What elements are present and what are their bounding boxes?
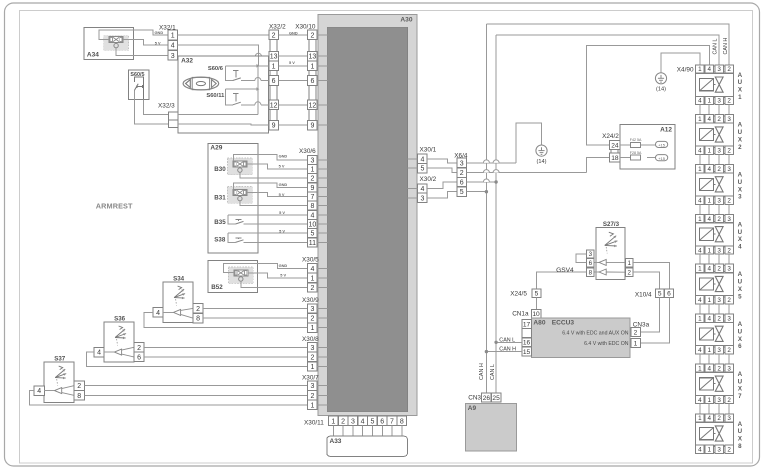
svg-text:CAN L: CAN L bbox=[490, 364, 496, 380]
connector X30/1 pin 5 bbox=[418, 164, 427, 173]
svg-text:A: A bbox=[738, 221, 743, 228]
connector X30/6 pin 8 bbox=[308, 201, 318, 210]
svg-text:X24/2: X24/2 bbox=[602, 133, 619, 140]
label CAN L (ECCU3) bbox=[499, 337, 515, 343]
svg-text:4: 4 bbox=[698, 197, 702, 204]
svg-text:3: 3 bbox=[727, 365, 731, 372]
connector CN1a pin 10 bbox=[531, 309, 541, 318]
svg-text:3: 3 bbox=[310, 306, 314, 313]
svg-text:S27/3: S27/3 bbox=[603, 221, 620, 228]
valve module AUX4 bbox=[696, 214, 743, 254]
svg-text:6: 6 bbox=[310, 78, 314, 85]
connector X6/4 pin 3 bbox=[457, 158, 467, 167]
connector X30/5 pin 4 bbox=[308, 264, 318, 273]
label 5 V (A34) bbox=[155, 40, 161, 45]
svg-text:1: 1 bbox=[171, 33, 175, 40]
svg-text:3: 3 bbox=[589, 251, 593, 258]
wire X6/4 pin2 to X24/2 pin18 bbox=[467, 158, 610, 173]
svg-text:12: 12 bbox=[270, 102, 278, 109]
connector S27/3 pin 8 bbox=[587, 268, 595, 276]
svg-text:12: 12 bbox=[309, 102, 317, 109]
svg-text:1: 1 bbox=[698, 365, 702, 372]
connector X32/1 pin 4 bbox=[168, 40, 178, 50]
svg-text:F28 5A: F28 5A bbox=[630, 151, 642, 155]
connector X10/4 pin 6 bbox=[665, 289, 674, 298]
svg-text:GSV4: GSV4 bbox=[556, 267, 574, 274]
connector X30/6 pin 9 bbox=[308, 183, 318, 192]
wire X4/90 pin1 to ground bbox=[661, 53, 700, 73]
svg-text:2: 2 bbox=[460, 170, 464, 177]
svg-text:(14): (14) bbox=[656, 87, 666, 93]
svg-text:A34: A34 bbox=[87, 51, 99, 58]
wire B52 wiper to X30/5 pin 2 bbox=[241, 281, 308, 287]
svg-text:4: 4 bbox=[698, 397, 702, 404]
stub X30/6 pin 10 into A30 bbox=[317, 223, 327, 225]
svg-text:1: 1 bbox=[272, 63, 276, 70]
svg-text:5: 5 bbox=[658, 291, 662, 298]
svg-text:X30/10: X30/10 bbox=[295, 24, 316, 31]
svg-text:1: 1 bbox=[707, 148, 711, 155]
svg-text:6.4 V with EDC ON: 6.4 V with EDC ON bbox=[584, 341, 629, 347]
svg-text:X30/1: X30/1 bbox=[420, 147, 437, 154]
sensor B30 symbol bbox=[228, 158, 253, 175]
control unit A30 outer box bbox=[318, 15, 417, 416]
switch S60/11 bbox=[225, 89, 268, 105]
svg-text:X30/2: X30/2 bbox=[420, 176, 437, 183]
connector X30/8 pin 2 bbox=[308, 352, 318, 361]
svg-text:2: 2 bbox=[727, 148, 731, 155]
svg-text:A: A bbox=[738, 122, 743, 129]
wire X30/2 pin3 to X6/4 pin5 bbox=[427, 192, 457, 198]
svg-text:4: 4 bbox=[707, 216, 711, 223]
svg-text:2: 2 bbox=[738, 144, 742, 151]
connector X30/10 pin 6 bbox=[308, 76, 318, 86]
svg-text:GND: GND bbox=[279, 182, 288, 187]
wire S27/3 pin1 to X10/4 pin6 bbox=[633, 263, 669, 289]
svg-text:3: 3 bbox=[310, 157, 314, 164]
svg-text:4: 4 bbox=[171, 43, 175, 50]
lever upper (S27/3) bbox=[594, 259, 625, 265]
svg-text:15: 15 bbox=[523, 349, 531, 356]
label GND (B30) bbox=[279, 154, 288, 159]
label CAN L (top right, vertical) bbox=[713, 39, 719, 55]
valve module AUX7 bbox=[696, 364, 743, 404]
connector X32/2 pin 1 bbox=[269, 61, 279, 71]
svg-text:6: 6 bbox=[380, 418, 384, 425]
svg-text:2: 2 bbox=[717, 365, 721, 372]
svg-text:1: 1 bbox=[698, 216, 702, 223]
sensor B52 box bbox=[208, 260, 258, 292]
svg-text:X30/7: X30/7 bbox=[302, 375, 319, 382]
svg-text:1: 1 bbox=[738, 94, 742, 101]
svg-text:2: 2 bbox=[727, 347, 731, 354]
wire X30/11 pin 8 to A33 bbox=[401, 426, 403, 437]
svg-text:S38: S38 bbox=[214, 237, 226, 244]
wire CAN H to ECCU3 pin15 bbox=[485, 350, 522, 353]
connector X32/2 pin 2 bbox=[269, 30, 279, 40]
connector X30/9 pin 3 bbox=[308, 304, 318, 313]
svg-text:6: 6 bbox=[589, 260, 593, 267]
svg-text:5 V: 5 V bbox=[279, 210, 285, 215]
wire GSV4: S27/3 pin8 to X24/5 pin5 bbox=[536, 272, 586, 289]
wire A34 wiper to X32/1 pin 3 bbox=[116, 48, 168, 56]
svg-text:ARMREST: ARMREST bbox=[96, 202, 133, 211]
fuse F28 5A bbox=[620, 151, 655, 160]
stub X30/9 pin 1 into A30 bbox=[317, 327, 327, 329]
svg-text:X32/3: X32/3 bbox=[158, 103, 175, 110]
svg-text:8: 8 bbox=[196, 316, 200, 323]
connector X30/7 label bbox=[302, 375, 319, 382]
svg-text:2: 2 bbox=[717, 415, 721, 422]
wire X32/3 lower pin to X32/2 pin 9 bbox=[178, 124, 269, 125]
connector X30/9 pin 1 bbox=[308, 323, 318, 332]
svg-text:5: 5 bbox=[535, 291, 539, 298]
svg-text:5 V: 5 V bbox=[289, 60, 295, 65]
svg-text:3: 3 bbox=[727, 316, 731, 323]
wire CAN L top run bbox=[496, 35, 719, 65]
svg-text:2: 2 bbox=[727, 98, 731, 105]
svg-text:2: 2 bbox=[727, 447, 731, 454]
wire X32/3 upper pin to switch rail bbox=[178, 114, 258, 116]
svg-text:24: 24 bbox=[611, 142, 619, 149]
svg-text:3: 3 bbox=[460, 160, 464, 167]
svg-text:13: 13 bbox=[270, 54, 278, 61]
fuse box A12 bbox=[620, 124, 675, 169]
wire X32/2 pin13 to X30/10 pin13 bbox=[278, 55, 307, 57]
svg-text:1: 1 bbox=[698, 266, 702, 273]
svg-text:17: 17 bbox=[523, 321, 531, 328]
switch S60/6 bbox=[225, 66, 268, 81]
svg-text:F42 5A: F42 5A bbox=[630, 138, 642, 142]
svg-text:A: A bbox=[738, 421, 743, 428]
connector X30/2 pin 4 bbox=[418, 184, 427, 193]
wire X30/11 pin 6 to A33 bbox=[381, 426, 383, 437]
connector X30/7 pin 1 bbox=[308, 400, 318, 409]
svg-text:3: 3 bbox=[717, 347, 721, 354]
svg-text:1: 1 bbox=[707, 297, 711, 304]
svg-text:2: 2 bbox=[310, 316, 314, 323]
svg-text:2: 2 bbox=[310, 176, 314, 183]
svg-text:X24/5: X24/5 bbox=[510, 291, 527, 298]
connector X30/11 pin 7 bbox=[387, 416, 397, 425]
ground symbol (14) near X6/4 bbox=[536, 145, 547, 165]
stub X30/2 pin 3 bbox=[407, 197, 417, 199]
svg-text:6: 6 bbox=[272, 78, 276, 85]
switch S36 (with wires to X30/8) bbox=[87, 316, 308, 367]
svg-text:4: 4 bbox=[707, 365, 711, 372]
svg-text:2: 2 bbox=[727, 247, 731, 254]
svg-text:1: 1 bbox=[707, 397, 711, 404]
amplifier unit A33 box bbox=[327, 436, 408, 456]
svg-text:1: 1 bbox=[698, 316, 702, 323]
connector X30/1 pin 4 bbox=[418, 154, 427, 163]
wire S60/5 to X32/3 lower pin bbox=[135, 99, 169, 124]
svg-text:A32: A32 bbox=[181, 58, 193, 65]
connector X30/8 pin 1 bbox=[308, 362, 318, 371]
sensor B31 symbol bbox=[228, 187, 253, 204]
sensor A34 symbol bbox=[104, 36, 129, 51]
connector X32/1 pin 1 bbox=[168, 30, 178, 40]
svg-text:11: 11 bbox=[309, 240, 316, 247]
wire X32/1 pin3 to X32/2 pin13 (signal) bbox=[178, 53, 269, 56]
wire B30 5V to X30/6 pin 1 bbox=[247, 164, 308, 169]
svg-text:6: 6 bbox=[137, 354, 141, 361]
svg-text:(14): (14) bbox=[537, 159, 547, 165]
wire X32/1 pin4 to X32/2 pin1 (5V) bbox=[178, 45, 269, 66]
svg-text:3: 3 bbox=[420, 195, 424, 202]
svg-text:3: 3 bbox=[738, 194, 742, 201]
control unit A30 inner block bbox=[327, 27, 407, 412]
svg-text:1: 1 bbox=[331, 418, 335, 425]
stub X30/5 pin 4 into A30 bbox=[317, 267, 327, 269]
connector X30/10 strip bbox=[309, 30, 316, 130]
connector X10/4 label bbox=[635, 291, 652, 298]
stub X30/7 pin 1 into A30 bbox=[317, 404, 327, 406]
wire B30 wiper to X30/6 pin 2 bbox=[240, 172, 308, 178]
svg-text:4: 4 bbox=[698, 347, 702, 354]
label GSV4 bbox=[556, 267, 574, 274]
svg-text:A: A bbox=[738, 172, 743, 179]
svg-text:4: 4 bbox=[361, 418, 365, 425]
svg-text:1: 1 bbox=[634, 340, 638, 347]
svg-text:2: 2 bbox=[310, 32, 314, 39]
connector X24/5 label bbox=[510, 291, 527, 298]
wire CAN H bus (vertical) bbox=[485, 24, 487, 393]
svg-text:2: 2 bbox=[727, 197, 731, 204]
svg-text:CN3: CN3 bbox=[468, 394, 481, 401]
svg-text:3: 3 bbox=[727, 415, 731, 422]
svg-text:3: 3 bbox=[351, 418, 355, 425]
svg-text:3: 3 bbox=[727, 266, 731, 273]
svg-text:CAN L: CAN L bbox=[499, 337, 515, 343]
svg-text:7: 7 bbox=[738, 393, 742, 400]
svg-text:+15: +15 bbox=[658, 143, 666, 148]
connector CN1a label bbox=[512, 310, 529, 317]
svg-text:1: 1 bbox=[310, 325, 314, 332]
svg-text:3: 3 bbox=[171, 53, 175, 60]
connector X30/6 pin 1 bbox=[308, 165, 318, 174]
valve module AUX6 bbox=[696, 314, 743, 354]
svg-text:4: 4 bbox=[698, 148, 702, 155]
wire X6/4 pin6 to CAN L bbox=[467, 179, 498, 184]
svg-text:2: 2 bbox=[727, 397, 731, 404]
label CAN H (bus, vertical) bbox=[479, 363, 485, 380]
svg-text:3: 3 bbox=[717, 447, 721, 454]
svg-text:8: 8 bbox=[77, 393, 81, 400]
connector CN3a label bbox=[633, 321, 650, 328]
stub X30/8 pin 3 into A30 bbox=[317, 346, 327, 348]
svg-text:GND: GND bbox=[279, 263, 288, 268]
wire CAN H top run bbox=[486, 24, 729, 65]
connector X24/2 pin 18 bbox=[610, 153, 620, 162]
connector X30/5 pin 2 bbox=[308, 283, 318, 292]
wire B31 wiper to X30/6 pin 8 bbox=[240, 201, 308, 206]
wires AUX4 to AUX5 bbox=[700, 254, 729, 264]
connector X32/2 pin 13 bbox=[269, 51, 279, 61]
switch S60/11 label bbox=[206, 93, 225, 99]
control unit A80 ECCU3 box bbox=[531, 318, 630, 358]
svg-text:5 V: 5 V bbox=[279, 228, 285, 233]
wires AUX6 to AUX7 bbox=[700, 354, 729, 364]
svg-text:X30/11: X30/11 bbox=[304, 419, 324, 426]
svg-text:X10/4: X10/4 bbox=[635, 291, 652, 298]
wire B31 5V to X30/6 pin 7 bbox=[247, 193, 308, 197]
wire X30/11 pin 1 to A33 bbox=[332, 426, 334, 437]
svg-text:2: 2 bbox=[717, 166, 721, 173]
svg-text:5: 5 bbox=[370, 418, 374, 425]
svg-text:13: 13 bbox=[309, 54, 317, 61]
stub X30/10 pin 12 into A30 bbox=[317, 104, 327, 106]
text 6.4 V with EDC ON bbox=[584, 341, 629, 347]
svg-text:3: 3 bbox=[727, 116, 731, 123]
switch S34 (with wires to X30/9) bbox=[144, 276, 307, 328]
svg-text:2: 2 bbox=[310, 393, 314, 400]
wire X24/5 pin5 to CN1a pin10 bbox=[535, 298, 537, 310]
sensor B30 label bbox=[214, 166, 226, 173]
stub X30/5 pin 1 into A30 bbox=[317, 277, 327, 279]
connector X32/2 label bbox=[269, 24, 286, 31]
connector ECCU3 pin 17 bbox=[522, 320, 532, 329]
wire X30/11 pin 2 to A33 bbox=[342, 426, 344, 437]
svg-text:2: 2 bbox=[272, 32, 276, 39]
wire X32/2 pin1 to X30/10 pin1 (5V) bbox=[278, 65, 307, 67]
connector X10/4 pin 5 bbox=[655, 289, 664, 298]
svg-text:5: 5 bbox=[310, 231, 314, 238]
switch B35 label bbox=[214, 219, 226, 226]
svg-text:10: 10 bbox=[309, 222, 317, 229]
svg-text:1: 1 bbox=[707, 98, 711, 105]
svg-text:4: 4 bbox=[738, 244, 742, 251]
svg-text:9: 9 bbox=[272, 123, 276, 130]
svg-text:GND: GND bbox=[289, 30, 298, 35]
svg-text:U: U bbox=[738, 328, 743, 335]
wire X32/2 pin6 to X30/10 pin6 bbox=[278, 80, 307, 82]
svg-text:3: 3 bbox=[717, 197, 721, 204]
svg-text:1: 1 bbox=[707, 347, 711, 354]
svg-text:GND: GND bbox=[279, 154, 288, 159]
connector X30/11 pin 6 bbox=[377, 416, 387, 425]
label CAN L (bus, vertical) bbox=[490, 364, 496, 380]
svg-text:2: 2 bbox=[627, 269, 631, 276]
connector X30/9 label bbox=[302, 297, 319, 304]
connector X30/2 pin 3 bbox=[418, 193, 427, 202]
svg-text:5 V: 5 V bbox=[279, 192, 285, 197]
svg-text:2: 2 bbox=[727, 297, 731, 304]
valve module AUX3 bbox=[696, 165, 743, 205]
svg-text:5 V: 5 V bbox=[155, 40, 161, 45]
connector X24/5 pin 5 bbox=[532, 289, 541, 298]
wires AUX5 to AUX6 bbox=[700, 304, 729, 314]
svg-text:9: 9 bbox=[310, 185, 314, 192]
label CAN H (ECCU3) bbox=[499, 347, 516, 353]
svg-text:U: U bbox=[738, 129, 743, 136]
stub X30/7 pin 2 into A30 bbox=[317, 394, 327, 396]
label 5 V (B52) bbox=[280, 273, 286, 278]
svg-text:A12: A12 bbox=[660, 127, 672, 134]
svg-text:7: 7 bbox=[390, 418, 394, 425]
connector X6/4 pin 2 bbox=[457, 168, 467, 177]
wire X30/11 pin 5 to A33 bbox=[372, 426, 374, 437]
svg-text:10: 10 bbox=[532, 311, 540, 318]
svg-text:2: 2 bbox=[341, 418, 345, 425]
stub X30/6 pin 8 into A30 bbox=[317, 205, 327, 207]
svg-text:A: A bbox=[738, 371, 743, 378]
switch S60/5 box bbox=[128, 70, 149, 100]
svg-text:A80: A80 bbox=[533, 319, 545, 326]
svg-text:2: 2 bbox=[77, 383, 81, 390]
svg-text:4: 4 bbox=[707, 116, 711, 123]
label ARMREST bbox=[96, 202, 133, 211]
connector X32/3 label bbox=[158, 103, 175, 110]
label CAN H (top right, vertical) bbox=[723, 38, 729, 55]
svg-text:3: 3 bbox=[727, 216, 731, 223]
svg-text:3: 3 bbox=[717, 397, 721, 404]
connector CN3a pin 2 bbox=[631, 328, 641, 337]
wire X32/1 pin1 to X32/2 pin2 (GND rail) bbox=[178, 34, 269, 36]
svg-text:4: 4 bbox=[698, 297, 702, 304]
svg-text:2: 2 bbox=[717, 216, 721, 223]
connector CN3 pin 25 bbox=[491, 393, 501, 402]
svg-text:4: 4 bbox=[698, 247, 702, 254]
stub X30/5 pin 2 into A30 bbox=[317, 287, 327, 289]
svg-text:1: 1 bbox=[698, 166, 702, 173]
wire CAN L bus (vertical) bbox=[495, 35, 497, 393]
svg-text:8: 8 bbox=[310, 203, 314, 210]
connector S27/3 pin 6 bbox=[587, 258, 595, 266]
svg-text:3: 3 bbox=[310, 383, 314, 390]
svg-text:4: 4 bbox=[707, 266, 711, 273]
fuse F42 5A bbox=[620, 138, 655, 147]
svg-text:3: 3 bbox=[717, 66, 721, 73]
switch S37 (with wires to X30/7) bbox=[30, 356, 308, 405]
connector X6/4 pin 6 bbox=[457, 177, 467, 186]
stub X30/6 pin 3 into A30 bbox=[317, 159, 327, 161]
wire B52 gnd to X30/5 pin 4 bbox=[224, 263, 308, 272]
svg-text:+15: +15 bbox=[658, 156, 666, 161]
connector X30/1 label bbox=[420, 147, 437, 154]
connector X32/3 pin a bbox=[168, 112, 178, 120]
svg-text:CAN H: CAN H bbox=[723, 38, 729, 55]
connector X30/6 pin 4 bbox=[308, 210, 318, 219]
connector X30/2 label bbox=[420, 176, 437, 183]
sensor B52 symbol bbox=[228, 267, 253, 284]
stub X30/6 pin 11 into A30 bbox=[317, 241, 327, 243]
joystick symbol (S27/3) bbox=[605, 232, 618, 253]
connector CN3 label bbox=[468, 394, 481, 401]
connector X32/1 label bbox=[159, 25, 176, 32]
svg-text:B31: B31 bbox=[214, 195, 226, 202]
connector X30/6 pin 7 bbox=[308, 192, 318, 201]
wire S27/3 pin3 to pin6 loop bbox=[576, 254, 586, 263]
connector X30/9 pin 2 bbox=[308, 314, 318, 323]
svg-text:18: 18 bbox=[611, 155, 619, 162]
terminal +15 (upper) bbox=[656, 141, 668, 147]
svg-text:4: 4 bbox=[37, 388, 41, 395]
svg-text:U: U bbox=[738, 378, 743, 385]
wire S60/5 to X32/3 upper pin bbox=[143, 99, 168, 114]
svg-text:4: 4 bbox=[707, 166, 711, 173]
svg-text:B52: B52 bbox=[211, 284, 223, 291]
connector X32/1 pin 3 bbox=[168, 51, 178, 61]
stub X30/10 pin 1 into A30 bbox=[317, 65, 327, 67]
svg-text:5: 5 bbox=[460, 189, 464, 196]
wire X30/11 pin 4 to A33 bbox=[362, 426, 364, 437]
svg-text:X30/5: X30/5 bbox=[302, 257, 319, 264]
connector X30/11 pin 5 bbox=[368, 416, 378, 425]
connector X30/6 label bbox=[299, 148, 316, 155]
connector X32/2 pin 9 bbox=[269, 120, 279, 130]
stub X30/6 pin 4 into A30 bbox=[317, 214, 327, 216]
